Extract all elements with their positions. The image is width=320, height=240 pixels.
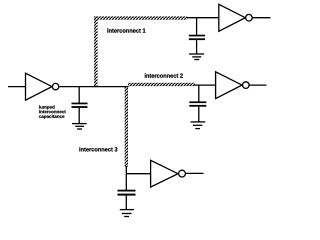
ground (lumped cap): [72, 124, 87, 129]
wire: interconnect 1 to load node: [187, 17, 220, 19]
wire: U4 output: [186, 172, 204, 174]
capacitor C1 upper lead: [196, 18, 198, 35]
interconnect 1 vertical section (distributed line): [94, 16, 97, 86]
inverter U4 (bottom load): [151, 160, 186, 187]
ground (C1): [189, 54, 204, 60]
inverter U2 (top load): [219, 4, 252, 31]
interconnect 2 section (distributed line): [128, 83, 195, 86]
interconnect 1 horizontal section (distributed line): [94, 16, 187, 19]
ground (C2): [191, 122, 206, 129]
wire: node B to U4 input: [126, 173, 151, 175]
capacitor C2: [189, 101, 206, 106]
capacitor C-lumped lower lead: [78, 108, 80, 124]
inverter U3 (middle load): [216, 72, 250, 99]
wire: driver output bus (node A): [59, 86, 129, 88]
ground (C3): [120, 210, 134, 217]
capacitor C-lumped (lumped interconnect capacitance): [72, 103, 88, 108]
wire: U2 output: [253, 17, 271, 19]
label: interconnect 2: [145, 73, 183, 77]
capacitor C1: [189, 35, 205, 40]
capacitor C1 lower lead: [196, 40, 198, 54]
wire: interconnect 3 lower lead (node B): [125, 166, 127, 190]
wire: input to driver: [8, 86, 26, 88]
capacitor C2 upper lead: [198, 85, 200, 102]
capacitor C2 lower lead: [198, 107, 200, 122]
wire: interconnect 2 to load node: [195, 84, 216, 86]
capacitor C3 lower lead: [125, 196, 127, 210]
label: interconnect 1: [107, 28, 145, 32]
inverter U1 (driver): [26, 73, 59, 100]
wire: U3 output: [249, 84, 266, 86]
capacitor C-lumped upper lead: [78, 87, 80, 103]
label: lumped interconnect capacitance: [39, 105, 66, 119]
label: interconnect 3: [79, 147, 117, 151]
interconnect 3 vertical section (distributed line): [125, 87, 128, 167]
capacitor C3: [118, 190, 136, 196]
